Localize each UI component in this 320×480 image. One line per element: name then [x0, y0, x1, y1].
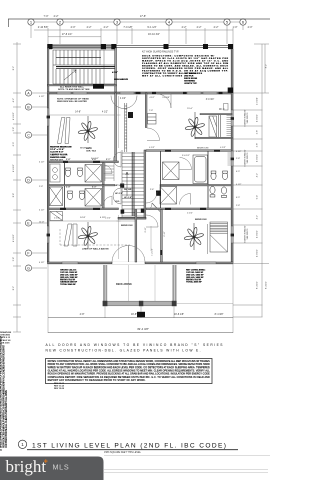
svg-text:8'-4 3/8": 8'-4 3/8" — [215, 313, 224, 316]
bottom-left closet doors — [64, 224, 77, 246]
stairwell bottom wall center — [118, 217, 146, 219]
hall wall post — [156, 191, 161, 196]
hall right wall upper — [145, 93, 147, 128]
bath sink counter upper-left — [50, 164, 60, 182]
right bath top wall — [146, 150, 231, 152]
svg-text:8'-4 1/2": 8'-4 1/2" — [257, 281, 259, 289]
svg-text:4 1/2": 4 1/2" — [102, 112, 108, 114]
hall guard rail with balusters — [125, 103, 127, 152]
svg-text:bright: bright — [6, 457, 47, 476]
corridor closet edge line — [150, 226, 152, 251]
master bedroom label block — [50, 145, 71, 161]
svg-text:4'-8 1/2": 4'-8 1/2" — [257, 230, 259, 238]
svg-text:2: 2 — [59, 20, 62, 25]
ceiling fan bottom-left bedroom — [78, 226, 98, 246]
svg-text:4'-2": 4'-2" — [182, 26, 187, 29]
svg-text:REPORT ANY DISCREPANCY TO DESI: REPORT ANY DISCREPANCY TO DESIGNER PRIOR… — [48, 379, 146, 382]
right exterior wall — [228, 49, 233, 264]
wic closet rect with diagonals — [209, 116, 217, 137]
svg-text:ALL DOORS AND WINDOWS TO BE V: ALL DOORS AND WINDOWS TO BE VIWINCO BRAN… — [46, 343, 224, 347]
svg-text:4'-8": 4'-8" — [80, 313, 85, 316]
windows on right wall — [231, 110, 233, 243]
svg-text:4 1/2": 4 1/2" — [149, 97, 155, 99]
svg-text:4'-5": 4'-5" — [236, 197, 240, 199]
svg-text:4'-8 1/2": 4'-8 1/2" — [257, 114, 259, 122]
svg-text:4 1/2": 4 1/2" — [120, 98, 126, 100]
svg-text:1: 1 — [21, 442, 24, 447]
deck left beam — [104, 265, 106, 301]
deck right beam — [173, 265, 175, 301]
bottom-left bedroom closet line — [49, 220, 136, 222]
door arc porch to right bedroom — [157, 94, 171, 108]
svg-text:B: B — [0, 448, 2, 452]
svg-text:17'-8": 17'-8" — [140, 15, 146, 18]
bottom bedroom labels — [80, 217, 207, 227]
bed bottom-right bedroom — [210, 222, 228, 252]
hall door arcs lower — [146, 192, 158, 227]
svg-text:2'-8": 2'-8" — [13, 127, 15, 132]
svg-text:9'-1 1/4": 9'-1 1/4" — [147, 26, 156, 29]
general notes box — [46, 359, 213, 384]
svg-text:BEDROOM: BEDROOM — [121, 225, 133, 227]
svg-text:2'-8": 2'-8" — [236, 205, 240, 207]
stairwell right wall — [115, 48, 117, 93]
svg-text:14'-8": 14'-8" — [75, 112, 81, 114]
stair middle landing rails — [56, 67, 115, 69]
svg-text:3: 3 — [116, 20, 119, 25]
svg-text:7'-8": 7'-8" — [149, 110, 153, 112]
svg-text:2'-10": 2'-10" — [164, 231, 166, 236]
right rotated dimension texts — [257, 64, 268, 289]
bath core top wall — [49, 161, 119, 163]
svg-text:4'-0": 4'-0" — [248, 26, 253, 29]
left margin rotated text strip — [0, 336, 8, 448]
hall diagonal door leaf — [149, 203, 160, 212]
bath core bottom wall — [49, 208, 119, 210]
svg-text:4 1/2": 4 1/2" — [236, 184, 242, 186]
interior wall: master bedroom right — [115, 93, 117, 162]
svg-text:+: + — [44, 459, 48, 466]
svg-text:ROUGH OPENINGS W/ MANUFACTURER: ROUGH OPENINGS W/ MANUFACTURER. PROVIDE … — [48, 373, 210, 376]
svg-text:2'-6": 2'-6" — [150, 189, 155, 191]
left margin tiny dim texts — [39, 96, 45, 264]
svg-text:4'-6 1/2": 4'-6 1/2" — [13, 164, 15, 172]
svg-text:REV 12.08: REV 12.08 — [54, 388, 65, 390]
svg-text:8'-2": 8'-2" — [13, 286, 15, 291]
bath core mid wall — [49, 185, 115, 186]
svg-text:4 1/2": 4 1/2" — [39, 262, 45, 264]
svg-text:4 1/2": 4 1/2" — [39, 96, 45, 98]
svg-text:G: G — [27, 266, 30, 270]
right wall hatch upper — [228, 153, 232, 165]
svg-text:39'-4 3/8": 39'-4 3/8" — [137, 327, 149, 331]
svg-text:4 1/2": 4 1/2" — [39, 210, 45, 212]
svg-text:4 1/2": 4 1/2" — [187, 213, 193, 215]
svg-text:4'-2": 4'-2" — [54, 15, 59, 18]
right bath shower lower — [160, 187, 177, 205]
svg-text:42" HIGH GUARD RAILINGS TYP.: 42" HIGH GUARD RAILINGS TYP. — [142, 51, 179, 54]
svg-text:5'-6 1/2": 5'-6 1/2" — [91, 158, 99, 160]
right bath shower upper — [163, 162, 180, 180]
svg-text:SEE SPECS: SEE SPECS — [247, 152, 249, 163]
svg-text:NOTE: TS AND RAILS 36" MIN: NOTE: TS AND RAILS 36" MIN — [58, 88, 90, 91]
svg-text:CONTRACTOR SHALL CHECK AND VER: CONTRACTOR SHALL CHECK AND VERIFY ALL DI… — [4, 390, 8, 448]
left margin small text block — [0, 331, 12, 344]
svg-text:2'-8": 2'-8" — [66, 159, 70, 161]
stair note text — [58, 85, 90, 91]
bath1 toilet 2 — [77, 168, 82, 177]
svg-text:8'-8": 8'-8" — [13, 193, 15, 198]
svg-text:14'-8": 14'-8" — [80, 217, 86, 219]
svg-text:JOISTS TYP.: JOISTS TYP. — [184, 83, 197, 85]
svg-text:5'-6 1/2": 5'-6 1/2" — [182, 155, 190, 157]
stair upper flight treads — [53, 50, 115, 65]
left exterior wall — [47, 93, 49, 264]
landing post — [120, 184, 124, 188]
svg-text:2'-8": 2'-8" — [66, 187, 70, 189]
svg-text:7'-0 1/8": 7'-0 1/8" — [123, 26, 132, 29]
deck area calc text block right — [186, 269, 206, 284]
bath1 toilet — [65, 168, 70, 177]
solid wall chunks — [136, 92, 223, 94]
egress window rotated notes — [245, 109, 249, 242]
svg-text:4 1/2": 4 1/2" — [105, 218, 111, 220]
svg-text:DECK ABOVE: DECK ABOVE — [116, 283, 132, 286]
bottom dimension line 2 — [48, 332, 233, 334]
interior vertical dim line — [117, 96, 121, 259]
left grid bubbles A-G — [25, 90, 47, 271]
top dimension texts — [38, 15, 253, 36]
svg-text:5'-0": 5'-0" — [92, 187, 96, 189]
window units on top wall — [57, 92, 217, 94]
svg-text:4'-2": 4'-2" — [87, 26, 92, 29]
svg-text:3'-0 3/8": 3'-0 3/8" — [162, 97, 170, 99]
svg-text:MASTER BEDROOM: MASTER BEDROOM — [50, 146, 71, 149]
left rotated dimension texts — [13, 66, 15, 291]
deck corner and center posts — [103, 301, 177, 306]
svg-text:3'-1": 3'-1" — [106, 159, 110, 161]
svg-text:4 1/2": 4 1/2" — [112, 71, 118, 74]
svg-text:DN 16R: DN 16R — [124, 189, 132, 191]
svg-text:19'-8 1/8": 19'-8 1/8" — [174, 313, 184, 316]
bath2 toilet — [67, 191, 72, 200]
svg-text:NOTES: CONTRACTOR SHALL VERIFY: NOTES: CONTRACTOR SHALL VERIFY ALL DIMEN… — [48, 360, 210, 363]
svg-text:B: B — [27, 105, 30, 109]
left sheet edge tick — [7, 19, 9, 27]
svg-text:1'-0": 1'-0" — [233, 26, 238, 29]
grid bubbles 1-6 — [28, 19, 246, 25]
svg-text:6'-4": 6'-4" — [257, 195, 259, 200]
bottom-left wardrobe hatch — [50, 212, 63, 221]
main top exterior wall — [47, 92, 233, 94]
svg-text:2'-8": 2'-8" — [257, 130, 259, 135]
right dimension column — [233, 44, 269, 317]
center stair rail — [132, 152, 134, 216]
landing text cluster — [115, 185, 132, 203]
french door arcs at bottom wall — [112, 246, 145, 263]
note: window operation limited — [57, 98, 89, 104]
svg-text:4: 4 — [168, 20, 171, 25]
ceiling fan master bedroom — [78, 121, 98, 141]
svg-text:BEDROOM: BEDROOM — [195, 219, 207, 221]
stair enclosure top wall — [47, 45, 116, 48]
hall entry semicircle door arc — [111, 96, 137, 109]
svg-text:4'-2": 4'-2" — [257, 173, 259, 178]
windows on left wall — [47, 108, 49, 243]
svg-text:4'-5": 4'-5" — [236, 171, 240, 173]
svg-text:2'-8": 2'-8" — [236, 158, 240, 160]
right side small dim texts — [236, 151, 242, 207]
right bath door arcs — [104, 158, 192, 206]
deck area calc text block left — [60, 269, 78, 286]
svg-text:NOTE: OPERATION OF THESE: NOTE: OPERATION OF THESE — [57, 98, 89, 101]
right bath mid wall — [160, 185, 231, 186]
center stair right wall — [144, 150, 146, 218]
bottom dim texts row1 — [80, 313, 224, 316]
stair landing edge line — [103, 50, 105, 84]
svg-text:2'-10": 2'-10" — [145, 227, 147, 232]
svg-text:TOTAL 4206 SF: TOTAL 4206 SF — [186, 281, 202, 284]
bath core tiny dim texts — [66, 147, 110, 189]
svg-text:4 1/2": 4 1/2" — [54, 218, 60, 220]
svg-text:16'-10 3/4": 16'-10 3/4" — [148, 33, 160, 36]
svg-text:C: C — [27, 133, 30, 137]
bottom-left bedroom right wall — [135, 210, 137, 262]
bath partition verticals left — [64, 163, 66, 208]
svg-text:4 1/2": 4 1/2" — [149, 147, 155, 149]
svg-text:14'-8": 14'-8" — [39, 222, 45, 224]
wall jamb darks — [60, 150, 220, 210]
bottom-right bedroom extras — [207, 224, 209, 254]
small text blob right of notes box — [54, 383, 65, 390]
linen closet hatch lower-left — [50, 187, 63, 206]
stairwell left wall — [47, 48, 49, 93]
svg-text:SEE SPECS: SEE SPECS — [247, 228, 249, 239]
svg-text:MLS: MLS — [53, 463, 70, 472]
svg-text:4'-6 1/2": 4'-6 1/2" — [13, 234, 15, 242]
corridor rotated tiny texts — [145, 206, 154, 256]
bath2 shower — [85, 189, 102, 207]
svg-text:2'-8": 2'-8" — [39, 186, 43, 188]
svg-text:19'-8": 19'-8" — [131, 313, 137, 316]
svg-text:LDG: LDG — [115, 201, 120, 203]
svg-text:8'-2": 8'-2" — [266, 64, 268, 69]
svg-text:4'-2": 4'-2" — [13, 98, 15, 103]
svg-text:WIRED W/ BATTERY BACKUP IN EAC: WIRED W/ BATTERY BACKUP IN EACH BEDROOM … — [48, 366, 210, 369]
svg-text:CARPET FLOOR: CARPET FLOOR — [50, 153, 68, 156]
stair lower flight treads — [53, 50, 115, 84]
svg-text:PAINTED GWB: PAINTED GWB — [50, 156, 66, 159]
svg-text:7'-0": 7'-0" — [44, 15, 49, 18]
center stair down arrow — [126, 172, 128, 196]
railing posts (black) — [47, 44, 233, 49]
svg-text:DRAWN BK: DRAWN BK — [0, 331, 12, 334]
svg-text:GLAZING AT ALL HAZARD LOCATION: GLAZING AT ALL HAZARD LOCATIONS PER CODE… — [48, 370, 211, 373]
svg-text:15'-0": 15'-0" — [187, 108, 193, 110]
hall black post — [128, 112, 133, 118]
bottom dim extension lines — [48, 264, 233, 333]
hall right side shelving — [148, 110, 157, 124]
closet rod hatch — [227, 116, 232, 136]
left dimension column — [13, 42, 21, 332]
deck area calc text block right — [186, 269, 206, 284]
svg-text:1: 1 — [30, 20, 33, 25]
ceiling fan bottom-right bedroom — [184, 227, 204, 247]
svg-text:COMPLIANCE REPORT. FIRE SEPARA: COMPLIANCE REPORT. FIRE SEPARATION AS RE… — [48, 376, 210, 379]
corner glyph top-left of title — [0, 445, 2, 452]
hall left door half-arcs — [113, 152, 121, 204]
right bath toilets — [210, 171, 228, 198]
svg-text:6: 6 — [242, 20, 245, 25]
stair up arrow — [64, 70, 76, 80]
viwinco note — [46, 343, 224, 352]
deck bottom fascia — [103, 301, 177, 306]
svg-text:2'-8": 2'-8" — [13, 257, 15, 262]
hall right wall door arc — [147, 128, 160, 141]
bright MLS logo box — [0, 457, 104, 480]
svg-text:1ST LIVING LEVEL PLAN (2ND FL.: 1ST LIVING LEVEL PLAN (2ND FL. IBC CODE) — [32, 442, 226, 449]
svg-text:4'-2": 4'-2" — [197, 26, 202, 29]
svg-text:MET AT ALL CONDITIONS: MET AT ALL CONDITIONS — [142, 74, 183, 77]
right bath bottom wall — [146, 208, 231, 210]
svg-text:4'-6 1/2": 4'-6 1/2" — [13, 112, 15, 120]
deck interior joist lines — [129, 265, 156, 301]
svg-text:E: E — [27, 221, 30, 225]
dashed lines of walls above — [60, 229, 130, 245]
svg-text:CER. TILE: CER. TILE — [86, 150, 97, 152]
bath1 shower — [85, 165, 102, 183]
W.I.C. partition upper right — [195, 99, 232, 139]
right deck edge thin line — [177, 302, 234, 304]
bottom-right bedroom left wall — [161, 210, 163, 262]
sheet top border line — [8, 18, 270, 20]
svg-text:8'-2": 8'-2" — [13, 66, 15, 71]
right bath partition vertical — [161, 151, 209, 208]
svg-text:D: D — [27, 178, 30, 182]
dim text row below top wall right — [149, 97, 170, 99]
svg-text:4'-0": 4'-0" — [71, 26, 76, 29]
svg-text:BEDROOM: BEDROOM — [197, 147, 208, 149]
svg-text:ALL RISER THIS WELL: ALL RISER THIS WELL — [60, 85, 85, 88]
svg-text:A: A — [27, 91, 30, 95]
svg-text:4'-8 1/2": 4'-8 1/2" — [257, 154, 259, 162]
stair handrail upper — [56, 57, 101, 59]
svg-text:3'-0 3/4": 3'-0 3/4" — [206, 99, 215, 101]
svg-text:4'-2": 4'-2" — [257, 215, 259, 220]
svg-text:BEDROOM: BEDROOM — [80, 147, 91, 149]
top dimension lines — [31, 22, 243, 44]
svg-text:LINES OF WALLS ABOVE: LINES OF WALLS ABOVE — [82, 247, 109, 250]
guard railing top — [116, 45, 233, 47]
svg-text:4 1/2": 4 1/2" — [236, 151, 242, 153]
svg-text:2'-8": 2'-8" — [257, 143, 259, 148]
window mullion blocks right wall — [231, 117, 234, 236]
bottom dimension line 1 — [48, 317, 233, 319]
svg-text:5: 5 — [226, 20, 229, 25]
ceiling fan right bedroom — [185, 117, 205, 137]
master closet doors — [58, 118, 71, 144]
svg-text:HIGH ABOVE: HIGH ABOVE — [114, 78, 128, 81]
svg-text:4 1/2": 4 1/2" — [39, 162, 45, 164]
center stair treads — [122, 150, 144, 218]
hall linen shelves — [105, 163, 114, 181]
right bedroom labels — [80, 108, 208, 149]
svg-text:2'-0 1/4": 2'-0 1/4" — [257, 97, 259, 105]
svg-text:NEW CONSTRUCTION-DBL. GLAZED P: NEW CONSTRUCTION-DBL. GLAZED PANELS WITH… — [46, 348, 201, 352]
svg-text:4'-2": 4'-2" — [104, 26, 109, 29]
svg-text:1583 SQUARE FEET THIS LEVEL: 1583 SQUARE FEET THIS LEVEL — [104, 451, 142, 454]
svg-text:17'-8 1/4": 17'-8 1/4" — [62, 33, 73, 36]
svg-text:6'-0": 6'-0" — [13, 142, 15, 147]
svg-text:8'-4 1/2": 8'-4 1/2" — [266, 281, 268, 289]
stairwell bottom wall — [47, 85, 116, 86]
window mullion blocks left wall — [47, 116, 50, 237]
dim text sprinkles interior — [54, 147, 226, 220]
stair side posts — [121, 210, 125, 214]
svg-text:WINDOWS WILL BE LIMITED: WINDOWS WILL BE LIMITED — [57, 101, 87, 103]
master closet line — [49, 114, 115, 116]
railing note paragraph top right — [142, 51, 179, 54]
title underline — [27, 449, 238, 451]
title bubble — [18, 440, 26, 448]
svg-text:4'-2": 4'-2" — [214, 26, 219, 29]
bedroom dim texts upper left — [75, 98, 126, 114]
svg-text:PRIOR TO ANY CONSTRUCTION. ALL: PRIOR TO ANY CONSTRUCTION. ALL WORK SHAL… — [48, 363, 210, 366]
center wall-above mark — [137, 312, 145, 317]
faint lines right of logo — [104, 456, 270, 473]
bath2 toilet 2 — [79, 191, 84, 200]
bathtub — [195, 157, 207, 183]
stair bottom wall black chunk — [93, 84, 104, 89]
svg-text:4'-8 1/2": 4'-8 1/2" — [257, 249, 259, 257]
svg-text:1'-4 1/2": 1'-4 1/2" — [152, 248, 154, 256]
svg-text:SEE SPECS: SEE SPECS — [247, 112, 249, 123]
bottom exterior wall — [47, 262, 233, 264]
svg-text:F: F — [27, 251, 30, 255]
svg-text:2'-10 5/8": 2'-10 5/8" — [38, 26, 49, 29]
svg-text:4 1/2": 4 1/2" — [220, 147, 226, 149]
svg-text:TOTAL 5549 SF: TOTAL 5549 SF — [60, 283, 76, 286]
